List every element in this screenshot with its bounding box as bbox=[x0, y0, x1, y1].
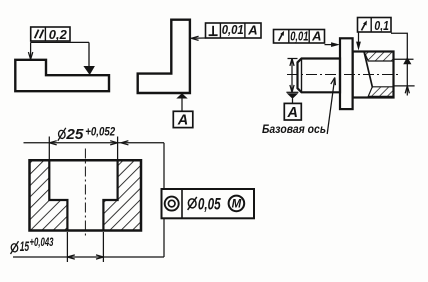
svg-text:0,05: 0,05 bbox=[198, 196, 221, 214]
svg-text:0,01: 0,01 bbox=[222, 22, 244, 37]
svg-text:0,1: 0,1 bbox=[374, 18, 389, 33]
svg-text:Базовая ось: Базовая ось bbox=[262, 124, 326, 136]
svg-text:25: 25 bbox=[65, 127, 84, 143]
svg-text:M: M bbox=[232, 199, 242, 211]
svg-text:+0,043: +0,043 bbox=[30, 237, 54, 249]
svg-text:A: A bbox=[287, 105, 298, 121]
svg-text:A: A bbox=[247, 22, 257, 37]
svg-text:0,01: 0,01 bbox=[290, 29, 308, 44]
svg-text:+0,052: +0,052 bbox=[85, 125, 115, 139]
svg-text:0,2: 0,2 bbox=[49, 27, 68, 42]
svg-text:15: 15 bbox=[20, 239, 30, 254]
svg-text:A: A bbox=[177, 113, 188, 129]
svg-text:A: A bbox=[311, 29, 321, 44]
